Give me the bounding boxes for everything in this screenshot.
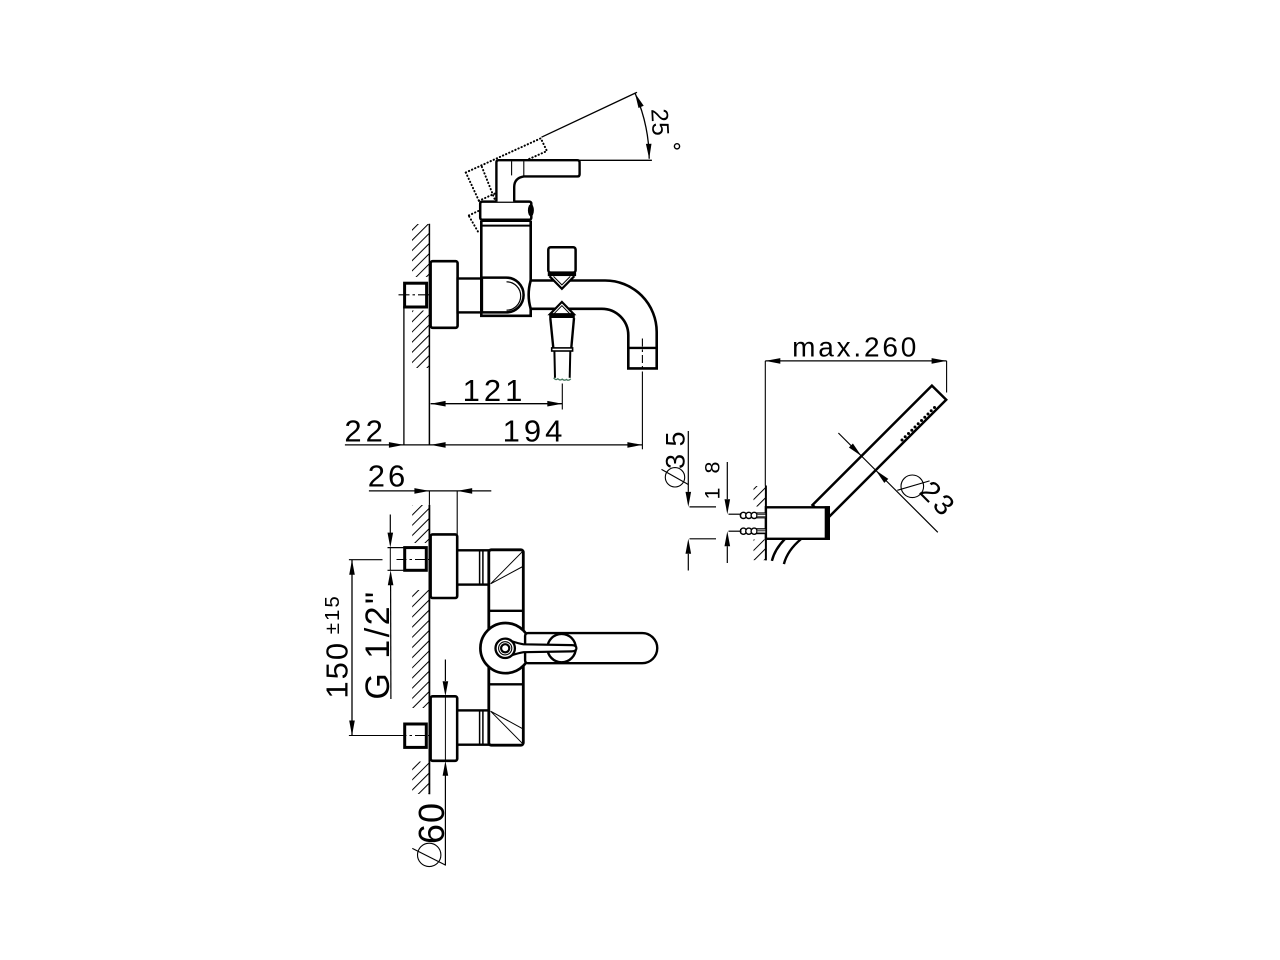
- upper fixing screw: [740, 512, 746, 518]
- mixer body cylinder (side view): [481, 221, 530, 316]
- wall surface line (front view): [428, 505, 430, 794]
- lever bar (front view): [525, 633, 657, 663]
- aerator break line (green): [554, 378, 571, 380]
- wall hatch (front view): [412, 505, 429, 543]
- lower union nut (front view): [405, 724, 427, 747]
- D35 diameter symbol: [665, 468, 684, 487]
- outlet cone step ring: [552, 348, 573, 351]
- hand shower wand: [813, 386, 947, 519]
- wall flange escutcheon (side view): [431, 261, 458, 328]
- cartridge dome inner arc: [507, 282, 521, 310]
- body chamfer lines (front view): [491, 552, 523, 743]
- dimension D23 line and arrows: [838, 433, 937, 532]
- set screw hole on cap: [528, 204, 534, 216]
- dotted tilted handle (25 deg raised position): [466, 138, 547, 172]
- lower chevron seal: [550, 302, 574, 314]
- wand spray nozzle dots: [901, 439, 904, 442]
- dimension D60 leader line and arrows: [444, 660, 446, 682]
- aerator centerline extension: [561, 384, 563, 410]
- upper chevron seal: [550, 276, 575, 289]
- lever neck (front view): [510, 641, 577, 657]
- svg-text:150: 150: [320, 641, 355, 699]
- wall cross-section hatch (side view): [412, 224, 429, 277]
- dimension 18 lines and arrows: [726, 462, 728, 499]
- spout outline (side view): [529, 281, 657, 369]
- spout end cap separation line: [628, 347, 656, 349]
- svg-text:25: 25: [645, 108, 673, 137]
- spout end centerline: [641, 339, 643, 372]
- handle hub circles (front view): [496, 639, 515, 658]
- shower wall hatch: [754, 486, 766, 507]
- horizontal centerline through inlet (side view): [399, 294, 468, 296]
- svg-text:22: 22: [344, 413, 386, 448]
- body section lines (front view): [489, 610, 524, 612]
- lower fixing screw: [740, 528, 746, 534]
- aerator tube: [554, 351, 570, 378]
- wall front surface line (side view): [428, 224, 430, 445]
- cartridge dome (side view): [482, 278, 524, 313]
- svg-text:max.260: max.260: [792, 332, 919, 363]
- dimension 121 line and arrows: [431, 403, 563, 405]
- dimension 26 line and arrows: [369, 490, 491, 492]
- cap of cartridge (side view): [480, 202, 531, 220]
- outlet cone thick band: [549, 314, 575, 318]
- supply nut behind wall (side view): [405, 283, 427, 307]
- 25 deg arc arrowheads: [635, 93, 644, 108]
- D60 diameter symbol: [418, 843, 441, 866]
- G 1/2 dimension arrows and leader: [389, 515, 391, 534]
- svg-text:26: 26: [368, 459, 408, 494]
- lower wall flange (front view): [431, 696, 458, 761]
- upper nut centerline: [397, 559, 439, 561]
- svg-text:G 1/2": G 1/2": [359, 589, 397, 699]
- shower holder box: [766, 507, 829, 539]
- wall back line (side view): [403, 306, 405, 445]
- 25 deg dimension reference lines: [542, 92, 638, 137]
- dimension max.260 line and arrows: [765, 360, 946, 362]
- dimension 150 extension lines: [349, 559, 383, 561]
- dimension 150 line and arrows: [351, 560, 353, 736]
- svg-text:194: 194: [503, 413, 567, 448]
- svg-text:35: 35: [661, 424, 691, 469]
- outlet cone (side view): [550, 318, 574, 348]
- svg-text:18: 18: [700, 448, 724, 500]
- upper connector (front view): [457, 550, 489, 584]
- shower wall line: [765, 486, 767, 561]
- upper wall flange (front view): [431, 534, 458, 598]
- cartridge ring lines: [482, 220, 530, 222]
- svg-text:±15: ±15: [321, 594, 344, 634]
- dimension 194/22 line and arrows: [345, 444, 643, 446]
- svg-text:121: 121: [463, 373, 527, 408]
- diverter knob (side view): [548, 247, 575, 272]
- upper union nut (front view): [405, 548, 427, 571]
- shower hose arcs: [772, 539, 785, 561]
- lower nut centerline: [397, 735, 439, 737]
- holder thick right edge: [825, 506, 830, 539]
- mixer body (front view): [489, 550, 524, 745]
- D23 diameter symbol: [901, 475, 924, 498]
- eccentric connector (side view): [458, 279, 482, 313]
- lower connector (front view): [457, 710, 489, 744]
- dimension 26 extension lines: [428, 491, 430, 505]
- svg-text:60: 60: [411, 802, 452, 844]
- lever pivot ball circle (front view): [547, 634, 575, 662]
- dimension max.260 extension lines: [764, 361, 766, 486]
- 25 deg dimension arc: [635, 93, 649, 159]
- handle bar detail ticks: [511, 161, 513, 175]
- dimension D35 lines and arrows: [687, 431, 689, 492]
- handle escutcheon circle (front view): [480, 623, 530, 673]
- diverter knob thick band: [548, 272, 576, 276]
- lever handle bar and stem (side view): [496, 160, 579, 201]
